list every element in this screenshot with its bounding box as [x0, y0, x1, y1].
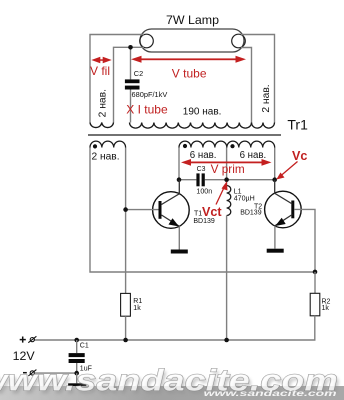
transformer core Tr1 [88, 134, 281, 136]
svg-text:V fil: V fil [90, 64, 110, 78]
polarity dot primary left half [183, 144, 187, 148]
svg-text:190 нав.: 190 нав. [183, 107, 222, 118]
wire R2 top from node [314, 272, 316, 293]
transistor T2 emitter lead with arrow [275, 215, 292, 226]
polarity dot primary right half [230, 144, 234, 148]
svg-text:1k: 1k [133, 305, 141, 312]
svg-text:C1: C1 [80, 343, 89, 350]
wire C1 node to ground [76, 373, 78, 383]
svg-text:6 нав.: 6 нав. [190, 150, 217, 161]
transistor T2 body circle [265, 191, 302, 228]
capacitor C3 plates [196, 173, 204, 186]
resistor R2 body [310, 293, 320, 316]
wire positive supply rail [35, 316, 315, 340]
ground T2 emitter [267, 249, 284, 253]
node junction center tap / L1 [224, 177, 229, 182]
svg-text:V prim: V prim [211, 162, 245, 176]
wire negative rail [35, 372, 77, 374]
svg-text:470µH: 470µH [234, 195, 255, 203]
svg-text:2 нав.: 2 нав. [261, 84, 272, 112]
node junction C2 tap [128, 45, 133, 50]
wire lamp top-left terminal to left outer vertical [90, 35, 144, 123]
wire feedback-right vertical down to R1 [125, 148, 127, 294]
wire lamp bottom-right terminal to inner-right vertical [241, 48, 252, 123]
terminal plus connector [28, 336, 36, 342]
node junction primary-left / T1 collector [177, 177, 182, 182]
transistor T1 emitter lead with arrow [162, 215, 180, 226]
dimension arrow V tube (red) [131, 56, 246, 63]
pointer arrow Vc (red) [276, 162, 297, 180]
terminal minus connector [28, 370, 36, 376]
lamp LA1 tube body [140, 29, 244, 52]
capacitor C2 plates [125, 79, 140, 89]
transistor T1 base bar [159, 201, 162, 219]
transistor T2 base bar [291, 201, 294, 219]
svg-text:C3: C3 [197, 166, 206, 173]
winding W-prim primary (6+6 turns) [179, 141, 275, 147]
svg-text:BD139: BD139 [193, 218, 215, 225]
dimension arrow V fil (red) [91, 57, 111, 63]
svg-text:2 нав.: 2 нав. [92, 151, 120, 162]
wire T1 emitter to ground [178, 226, 180, 249]
svg-text:BD139: BD139 [240, 210, 262, 217]
winding W-fil-right (2 turns) [252, 123, 275, 129]
inductor L1 coil [227, 186, 231, 216]
node junction minus rail / C1 [74, 371, 79, 376]
lamp right electrode circle [232, 34, 246, 48]
svg-text:Vct: Vct [202, 205, 222, 219]
ground supply [68, 383, 86, 387]
wire C2 branch top [130, 47, 132, 79]
wire primary left end down to collector node [178, 148, 180, 180]
transistor T1 body circle [153, 192, 190, 229]
node junction rail / C1 [74, 338, 79, 343]
winding W-fil-left (2 turns) [90, 123, 114, 128]
wire L1 bottom to supply rail [226, 216, 228, 341]
wire R1 bottom to rail [125, 316, 127, 340]
node junction rail / center tap [224, 338, 229, 343]
ground T1 emitter [171, 250, 188, 254]
svg-text:www.sandacite.com: www.sandacite.com [204, 388, 338, 398]
watermark bottom bar [0, 386, 344, 400]
lamp left electrode circle [140, 34, 154, 48]
svg-text:1k: 1k [322, 305, 330, 312]
wire tank left segment to C3 [179, 179, 196, 181]
wire C2 bottom to 190-turn winding start [130, 90, 132, 123]
wire C1 top [76, 340, 78, 353]
node junction primary-right / T2 collector [272, 177, 277, 182]
wire T1 base [126, 209, 159, 211]
label minus [23, 372, 27, 374]
capacitor C1 plates [69, 353, 85, 363]
svg-text:Tr1: Tr1 [287, 117, 308, 133]
svg-text:C2: C2 [134, 69, 143, 78]
svg-text:680pF/1kV: 680pF/1kV [132, 90, 168, 99]
node junction rail / R1 [123, 338, 128, 343]
wire primary right end down to collector node [274, 148, 276, 180]
winding W-sec 190 turns [130, 123, 252, 129]
node junction T2 base line / R2 [313, 270, 318, 275]
wire T2 base to R2 [294, 209, 315, 272]
wire primary center tap down to L1 [226, 148, 228, 186]
svg-text:2 нав.: 2 нав. [97, 89, 108, 117]
svg-text:T1: T1 [194, 210, 202, 217]
wire T2 emitter to ground [274, 226, 276, 249]
resistor R1 body [121, 293, 131, 316]
polarity dot feedback winding [93, 144, 97, 148]
label plus [20, 337, 26, 343]
svg-text:7W Lamp: 7W Lamp [166, 13, 219, 27]
transistor T1 collector lead [162, 180, 180, 205]
pointer arrow Vct (red) [216, 181, 228, 204]
wire feedback-left vertical and base line to T2 [90, 148, 315, 273]
node junction T1 base / feedback winding [123, 207, 128, 212]
dimension arrow V prim (red) [181, 159, 272, 166]
wire C1 bottom to minus rail [76, 363, 78, 373]
transistor T2 collector lead [275, 180, 293, 204]
svg-text:12V: 12V [13, 349, 36, 363]
wire lamp top-right terminal to right outer vertical [241, 35, 275, 123]
wire lamp bottom-left terminal to inner-left vertical [114, 47, 145, 122]
svg-text:X I tube: X I tube [126, 102, 168, 116]
svg-text:V tube: V tube [172, 66, 207, 80]
svg-text:100n: 100n [196, 188, 212, 196]
wire tank right segment from C3 [205, 179, 275, 181]
winding W-fb feedback (2 turns, lower left) [90, 141, 126, 147]
svg-text:Vc: Vc [292, 149, 307, 163]
